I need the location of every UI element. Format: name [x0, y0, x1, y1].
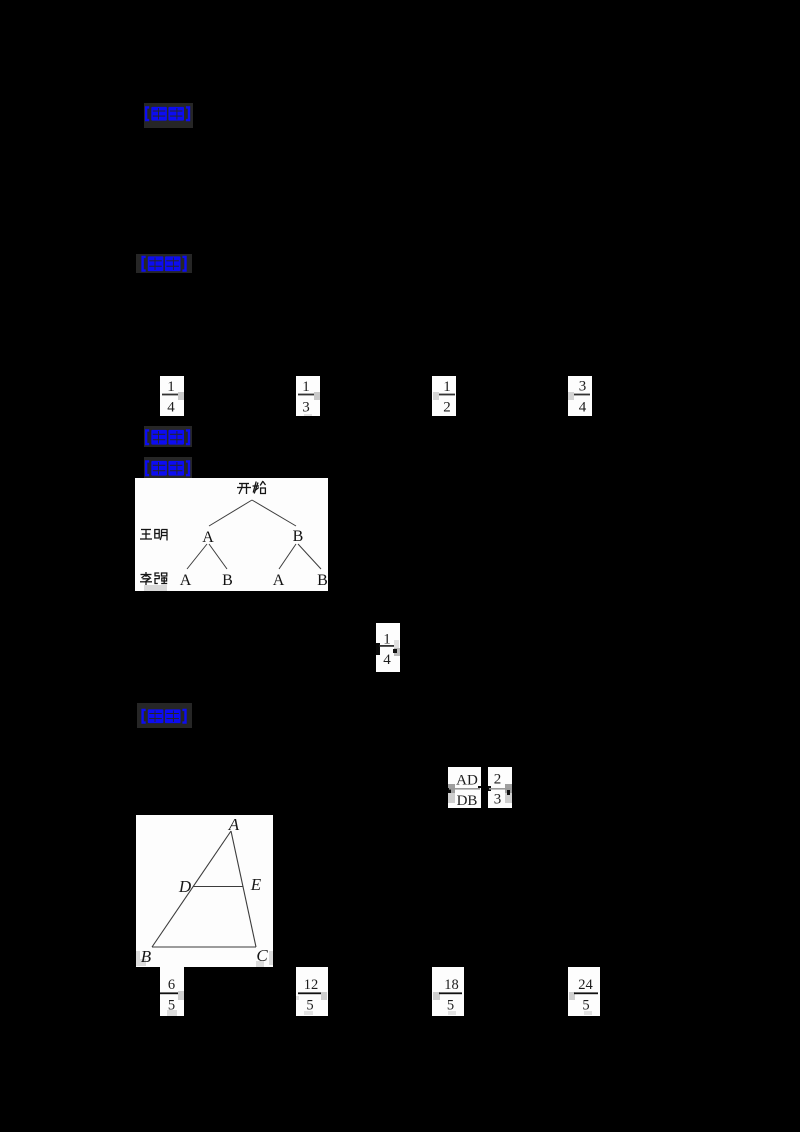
option fraction 1/4	[160, 376, 184, 416]
option fraction 6/5	[160, 967, 184, 1016]
option fraction 1/3	[296, 376, 320, 416]
fraction 2/3 image	[488, 767, 512, 808]
option fraction 24/5	[568, 967, 600, 1016]
option fraction 3/4	[568, 376, 592, 416]
label 2 blue highlighted	[136, 254, 192, 273]
svg-text:5: 5	[582, 998, 589, 1014]
label 5 blue highlighted	[137, 703, 192, 728]
option fraction 18/5	[432, 967, 464, 1016]
option fraction 1/2	[432, 376, 456, 416]
tree diagram image	[135, 478, 328, 591]
option fraction 12/5	[296, 967, 328, 1016]
label 4 blue highlighted	[144, 457, 192, 478]
label 3 blue highlighted	[144, 426, 192, 447]
label 1 blue highlighted	[144, 103, 193, 128]
fraction AD/DB image	[448, 767, 481, 808]
triangle figure image	[136, 815, 273, 967]
svg-text:24: 24	[578, 977, 593, 993]
solution fraction 1/4	[376, 623, 400, 672]
